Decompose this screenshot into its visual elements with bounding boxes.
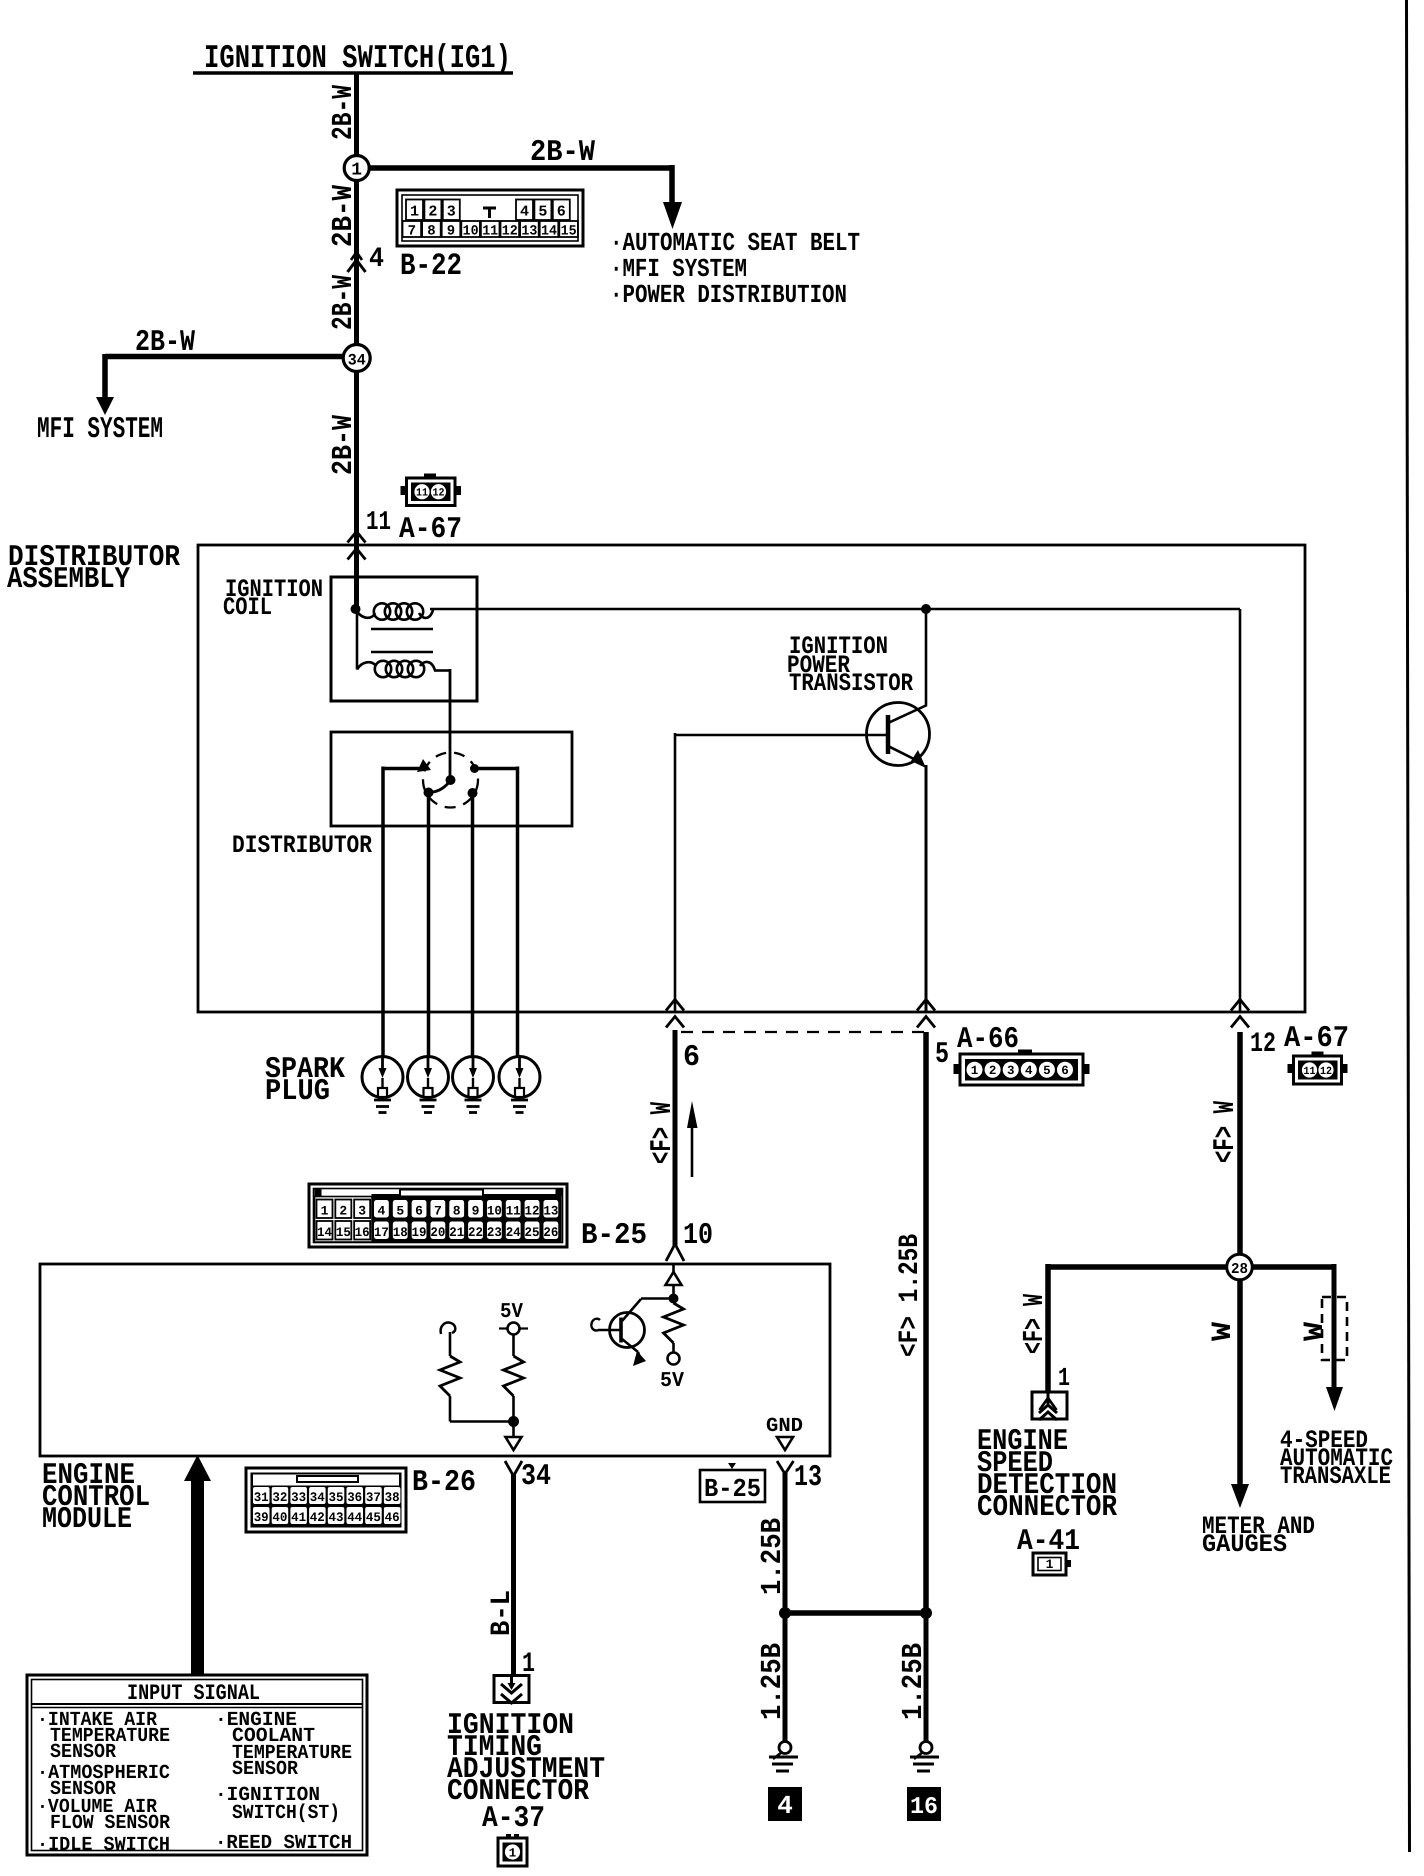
distributor contact upper-left with arrow bbox=[417, 759, 431, 772]
svg-text:4: 4 bbox=[777, 1791, 793, 1821]
svg-text:·REED SWITCH: ·REED SWITCH bbox=[215, 1832, 352, 1855]
wire node 28 to meter and gauges bbox=[1237, 1280, 1243, 1487]
connector B-26 row 31-38 bbox=[253, 1487, 270, 1504]
svg-text:7: 7 bbox=[434, 1204, 442, 1219]
svg-text:10: 10 bbox=[683, 1219, 713, 1253]
connector B-22 polarity key mark bbox=[483, 207, 496, 210]
svg-text:4: 4 bbox=[520, 204, 529, 221]
connector B-25 black cavity block bbox=[372, 1194, 562, 1243]
distributor rotor center and arm bbox=[446, 775, 456, 785]
wire transistor emitter down to A-66 pin 5 bbox=[925, 765, 928, 1012]
svg-text:2: 2 bbox=[428, 204, 437, 221]
spark plug wire 3 bbox=[471, 793, 475, 1059]
svg-text:4: 4 bbox=[377, 1204, 385, 1219]
connector B-26 top tab bbox=[297, 1476, 358, 1482]
wire coil secondary to distributor rotor bbox=[449, 669, 452, 779]
connector B-25 left cell frame bbox=[315, 1197, 373, 1243]
arrowhead to meter and gauges bbox=[1231, 1484, 1249, 1508]
svg-text:12: 12 bbox=[525, 1204, 540, 1219]
wire right ground drop bbox=[924, 1613, 929, 1741]
connector A-66 cavity numbers 1-6 bbox=[967, 1062, 983, 1078]
svg-text:6: 6 bbox=[557, 204, 566, 221]
ground left bbox=[779, 1742, 791, 1754]
ECM resistor R2 5V to pin 34 bbox=[512, 1335, 515, 1357]
svg-text:31: 31 bbox=[254, 1490, 269, 1505]
svg-text:5V: 5V bbox=[660, 1370, 684, 1393]
svg-text:16: 16 bbox=[355, 1225, 370, 1240]
distributor box bbox=[331, 732, 572, 826]
svg-text:1: 1 bbox=[509, 1847, 517, 1861]
svg-text:1: 1 bbox=[410, 204, 419, 221]
ground right bbox=[920, 1742, 932, 1754]
svg-text:A-67: A-67 bbox=[399, 513, 462, 547]
connector B-22 top row cells 4-6 bbox=[516, 200, 533, 221]
svg-text:23: 23 bbox=[487, 1225, 502, 1240]
wire A-67 pin 12 to node 28 bbox=[1237, 1032, 1243, 1254]
spark plug 3 bbox=[453, 1057, 494, 1113]
svg-text:13: 13 bbox=[794, 1461, 822, 1495]
svg-text:W: W bbox=[1208, 1322, 1239, 1341]
svg-text:3: 3 bbox=[1007, 1064, 1015, 1078]
svg-text:MODULE: MODULE bbox=[42, 1503, 132, 1537]
input signal box bbox=[27, 1675, 367, 1855]
svg-text:W: W bbox=[1300, 1322, 1331, 1341]
distributor contact lower-right bbox=[468, 788, 478, 798]
spark plug 1 bbox=[362, 1057, 403, 1113]
svg-text:B-22: B-22 bbox=[400, 249, 462, 284]
connector B-25 corner keys bbox=[315, 1189, 322, 1196]
arrowhead to MFI system bbox=[96, 397, 114, 415]
direction arrow beside <F> W bbox=[691, 1127, 694, 1177]
svg-text:12: 12 bbox=[502, 224, 518, 240]
svg-text:11: 11 bbox=[1304, 1066, 1316, 1078]
node 34 bbox=[343, 345, 370, 372]
svg-text:2: 2 bbox=[989, 1064, 997, 1078]
wire direction chevrons pin 5 at box bottom bbox=[917, 1000, 935, 1011]
svg-text:4: 4 bbox=[369, 244, 384, 275]
wire ECM pin 13 to ground bbox=[777, 1461, 785, 1474]
svg-text:CONNECTOR: CONNECTOR bbox=[977, 1491, 1117, 1525]
dashed link pin 6 to pin 5 bbox=[681, 1031, 926, 1033]
distributor contact lower-left bbox=[424, 788, 434, 798]
wire coil primary to power transistor and A-67 pin 12 bbox=[430, 608, 1240, 611]
connector B-25 body bbox=[309, 1184, 567, 1247]
svg-text:11: 11 bbox=[366, 508, 391, 538]
connector A-41 icon bbox=[1033, 1553, 1066, 1575]
svg-text:A-37: A-37 bbox=[482, 1802, 545, 1836]
svg-text:38: 38 bbox=[385, 1490, 400, 1505]
transistor Q1 ignition power transistor bbox=[867, 703, 930, 766]
svg-text:5V: 5V bbox=[500, 1301, 523, 1324]
node 1 bbox=[344, 156, 369, 181]
svg-text:GAUGES: GAUGES bbox=[1202, 1530, 1287, 1559]
svg-text:2B-W: 2B-W bbox=[530, 136, 595, 170]
svg-text:21: 21 bbox=[449, 1225, 464, 1240]
ECM pin 10 input triangle bbox=[666, 1272, 682, 1285]
svg-text:12: 12 bbox=[1250, 1029, 1276, 1060]
wire transistor collector from coil junction bbox=[925, 609, 928, 705]
wire ECM pin 34 to ignition timing connector bbox=[505, 1461, 514, 1476]
svg-text:41: 41 bbox=[291, 1510, 306, 1525]
svg-text:10: 10 bbox=[463, 224, 479, 240]
svg-text:1: 1 bbox=[971, 1064, 979, 1078]
svg-text:13: 13 bbox=[543, 1204, 558, 1219]
svg-text:2B-W: 2B-W bbox=[327, 414, 360, 475]
svg-text:40: 40 bbox=[272, 1510, 287, 1525]
svg-text:36: 36 bbox=[347, 1490, 362, 1505]
connector B-22 bottom row cells 7-15 bbox=[403, 221, 422, 237]
svg-text:12: 12 bbox=[433, 488, 445, 500]
svg-text:34: 34 bbox=[310, 1490, 325, 1505]
svg-text:11: 11 bbox=[416, 488, 428, 500]
connector A-67 top tab bbox=[424, 474, 436, 479]
dashed connector box on transaxle branch bbox=[1322, 1297, 1347, 1360]
svg-text:2: 2 bbox=[339, 1204, 347, 1219]
ECM GND triangle bbox=[777, 1437, 793, 1450]
ignition coil U2 box bbox=[331, 577, 477, 701]
node 28 bbox=[1227, 1254, 1253, 1280]
svg-text:·IDLE SWITCH: ·IDLE SWITCH bbox=[37, 1834, 170, 1857]
node 1 branch wire to right with arrow bbox=[368, 165, 672, 171]
svg-text:DISTRIBUTOR: DISTRIBUTOR bbox=[232, 831, 372, 860]
svg-text:32: 32 bbox=[272, 1490, 287, 1505]
svg-text:6: 6 bbox=[1061, 1064, 1069, 1078]
spark plug 2 bbox=[408, 1057, 449, 1113]
svg-text:B-25: B-25 bbox=[704, 1474, 761, 1504]
svg-text:5: 5 bbox=[935, 1038, 949, 1072]
ignition timing adjustment connector icon bbox=[494, 1676, 529, 1703]
ignition coil primary winding bbox=[355, 602, 359, 609]
wire pin 6 to connector B-25 pin 10 bbox=[673, 1030, 678, 1246]
wire A-67 pin 12 vertical bbox=[1239, 609, 1242, 1012]
junction dot R1/R2 bbox=[508, 1416, 519, 1427]
wire transistor base from ECM pin 10 line bbox=[675, 734, 888, 737]
ECM transistor Q2 bbox=[610, 1313, 645, 1348]
svg-text:SENSOR: SENSOR bbox=[232, 1758, 298, 1781]
wire 2B-W node 34 to distributor assembly bbox=[354, 371, 359, 609]
svg-text:2B-W: 2B-W bbox=[135, 326, 195, 360]
ECM pin 34 output triangle bbox=[506, 1437, 522, 1450]
svg-text:8: 8 bbox=[427, 224, 435, 240]
svg-text:6: 6 bbox=[683, 1041, 700, 1075]
svg-text:33: 33 bbox=[291, 1490, 306, 1505]
svg-text:SWITCH(ST): SWITCH(ST) bbox=[232, 1802, 340, 1825]
ECM pull-up resistor R3 bbox=[672, 1285, 675, 1303]
svg-text:<F> W: <F> W bbox=[1209, 1101, 1243, 1163]
svg-text:1.25B: 1.25B bbox=[756, 1643, 789, 1720]
svg-text:22: 22 bbox=[468, 1225, 483, 1240]
spark plug wire 2 bbox=[427, 793, 431, 1060]
svg-text:34: 34 bbox=[348, 352, 366, 370]
engine control module box bbox=[40, 1264, 830, 1456]
connector B-25 top tab bbox=[400, 1190, 483, 1197]
svg-text:1: 1 bbox=[1058, 1363, 1070, 1393]
svg-text:COIL: COIL bbox=[223, 593, 272, 622]
engine speed detection connector icon bbox=[1032, 1392, 1067, 1419]
svg-text:GND: GND bbox=[766, 1415, 803, 1438]
svg-text:1: 1 bbox=[1046, 1557, 1054, 1572]
svg-text:ASSEMBLY: ASSEMBLY bbox=[7, 563, 130, 597]
svg-text:42: 42 bbox=[310, 1510, 325, 1525]
svg-text:A-66: A-66 bbox=[957, 1023, 1019, 1057]
spark plug 4 bbox=[499, 1057, 540, 1113]
ECM 5V supply circle right bbox=[668, 1353, 680, 1365]
svg-text:TRANSAXLE: TRANSAXLE bbox=[1280, 1462, 1391, 1491]
svg-text:12: 12 bbox=[1320, 1066, 1332, 1078]
svg-text:8: 8 bbox=[453, 1204, 461, 1219]
svg-text:B-L: B-L bbox=[487, 1590, 518, 1636]
label B-25 boxed ground reference bbox=[728, 1463, 736, 1469]
connector A-67 right body bbox=[1294, 1056, 1342, 1084]
svg-text:15: 15 bbox=[336, 1225, 351, 1240]
svg-text:5: 5 bbox=[1043, 1064, 1051, 1078]
svg-text:13: 13 bbox=[521, 224, 537, 240]
svg-text:37: 37 bbox=[366, 1490, 381, 1505]
distributor assembly box bbox=[198, 545, 1305, 1012]
wire B-25 pin 10 into ECM bbox=[666, 1244, 675, 1261]
svg-text:19: 19 bbox=[412, 1225, 427, 1240]
svg-text:15: 15 bbox=[561, 224, 577, 240]
wire direction chevrons pin 12 at box bottom bbox=[1231, 1000, 1249, 1011]
arrowhead to automatic seat belt etc bbox=[663, 202, 682, 229]
svg-text:9: 9 bbox=[472, 1204, 480, 1219]
svg-text:43: 43 bbox=[329, 1510, 344, 1525]
svg-text:7: 7 bbox=[408, 224, 416, 240]
svg-text:SENSOR: SENSOR bbox=[50, 1741, 116, 1764]
svg-text:1: 1 bbox=[351, 161, 362, 181]
ground reference box 16 bbox=[907, 1787, 941, 1821]
connector B-22 top row cells 1-3 bbox=[406, 200, 423, 221]
wire node 28 to 4-speed automatic transaxle bbox=[1332, 1264, 1337, 1390]
node 34 branch wire to left with arrow to MFI system bbox=[105, 354, 345, 360]
connector B-22 body bbox=[397, 190, 583, 246]
svg-text:39: 39 bbox=[254, 1510, 269, 1525]
svg-text:INPUT SIGNAL: INPUT SIGNAL bbox=[127, 1681, 260, 1706]
connector A-66 body bbox=[960, 1054, 1083, 1085]
svg-text:35: 35 bbox=[329, 1490, 344, 1505]
connector B-26 body bbox=[246, 1468, 406, 1532]
input signal header rule bbox=[32, 1703, 363, 1705]
svg-text:3: 3 bbox=[358, 1204, 366, 1219]
svg-text:20: 20 bbox=[430, 1225, 445, 1240]
connector A-67 top body bbox=[407, 478, 456, 506]
svg-text:1: 1 bbox=[321, 1204, 329, 1219]
svg-text:PLUG: PLUG bbox=[265, 1075, 330, 1109]
distributor rotor dashed circle bbox=[423, 753, 478, 808]
svg-text:4: 4 bbox=[1025, 1064, 1033, 1078]
scan page edge line bbox=[1407, 0, 1410, 1852]
svg-text:<F> 1.25B: <F> 1.25B bbox=[895, 1234, 926, 1357]
wire 2B-W main vertical from ignition switch to node 1 bbox=[354, 73, 359, 156]
spark plug wire 1 bbox=[383, 767, 424, 771]
svg-text:17: 17 bbox=[374, 1225, 389, 1240]
wire direction chevrons at distributor assembly entry bbox=[348, 532, 366, 543]
svg-text:A-67: A-67 bbox=[1284, 1022, 1349, 1056]
svg-text:·POWER DISTRIBUTION: ·POWER DISTRIBUTION bbox=[610, 280, 847, 310]
svg-text:45: 45 bbox=[366, 1510, 381, 1525]
svg-text:B-25: B-25 bbox=[581, 1219, 647, 1253]
svg-text:25: 25 bbox=[525, 1225, 540, 1240]
connector B-25 row 1 cells 1-13 bbox=[317, 1200, 333, 1219]
svg-text:3: 3 bbox=[447, 204, 456, 221]
svg-text:9: 9 bbox=[447, 224, 455, 240]
ECM 5V supply circle left bbox=[508, 1323, 520, 1335]
svg-text:14: 14 bbox=[317, 1225, 332, 1240]
wire direction chevrons pin 6 at box bottom bbox=[666, 1000, 684, 1011]
ignition coil core bbox=[371, 628, 433, 631]
svg-text:5: 5 bbox=[538, 204, 547, 221]
svg-text:24: 24 bbox=[506, 1225, 521, 1240]
svg-text:<F> W: <F> W bbox=[646, 1102, 680, 1164]
connector B-26 row 39-46 bbox=[253, 1507, 270, 1524]
wire Q2 collector to 5V pull-up bbox=[641, 1297, 674, 1300]
svg-text:B-26: B-26 bbox=[412, 1466, 476, 1500]
wire 2B-W node 1 to node 34 bbox=[354, 180, 359, 348]
svg-text:6: 6 bbox=[415, 1204, 423, 1219]
junction dot collector bbox=[669, 1294, 679, 1304]
ignition coil secondary winding bbox=[356, 611, 359, 670]
svg-text:11: 11 bbox=[506, 1204, 521, 1219]
ground join wire bbox=[785, 1610, 926, 1616]
svg-text:MFI SYSTEM: MFI SYSTEM bbox=[37, 413, 163, 447]
ignition switch bus underline bbox=[193, 71, 513, 75]
svg-text:16: 16 bbox=[910, 1794, 938, 1821]
wire node 28 to engine speed detection connector bbox=[1045, 1264, 1051, 1392]
wire transistor base vertical to pin 6 bbox=[674, 733, 677, 1012]
wire direction chevron above B-22 junction 4 bbox=[348, 260, 366, 272]
svg-text:5: 5 bbox=[396, 1204, 404, 1219]
svg-text:2B-W: 2B-W bbox=[327, 275, 360, 330]
distributor contact upper-right bbox=[470, 764, 479, 773]
connector A-67 right tabs bbox=[1312, 1052, 1324, 1057]
svg-text:28: 28 bbox=[1231, 1261, 1248, 1278]
wire A-66 pin 5 down to ground join bbox=[923, 1032, 929, 1613]
input signal arrow to ECM bbox=[191, 1478, 204, 1676]
svg-text:46: 46 bbox=[385, 1510, 400, 1525]
svg-text:10: 10 bbox=[487, 1204, 502, 1219]
svg-text:44: 44 bbox=[347, 1510, 362, 1525]
svg-text:1.25B: 1.25B bbox=[756, 1518, 789, 1595]
ECM pull-up resistor R1 with open end bbox=[441, 1323, 456, 1334]
svg-text:18: 18 bbox=[393, 1225, 408, 1240]
svg-text:14: 14 bbox=[541, 224, 557, 240]
spark plug wire 4 bbox=[477, 767, 518, 771]
svg-text:2B-W: 2B-W bbox=[327, 85, 360, 140]
junction dot above transistor bbox=[921, 604, 931, 614]
arrowhead to 4-speed automatic transaxle bbox=[1326, 1387, 1343, 1411]
connector B-25 row 2 cells 14-26 bbox=[317, 1221, 333, 1240]
node 28 horizontal wire bbox=[1048, 1264, 1334, 1270]
svg-text:FLOW SENSOR: FLOW SENSOR bbox=[50, 1812, 170, 1835]
svg-text:26: 26 bbox=[543, 1225, 558, 1240]
svg-text:34: 34 bbox=[521, 1460, 551, 1494]
ground reference box 4 bbox=[768, 1787, 802, 1821]
svg-text:TRANSISTOR: TRANSISTOR bbox=[789, 669, 913, 698]
svg-text:<F> W: <F> W bbox=[1018, 1294, 1051, 1354]
connector A-66 tabs bbox=[1018, 1050, 1032, 1055]
connector A-37 icon bbox=[506, 1834, 511, 1839]
svg-text:2B-W: 2B-W bbox=[327, 184, 360, 247]
svg-text:11: 11 bbox=[482, 224, 498, 240]
